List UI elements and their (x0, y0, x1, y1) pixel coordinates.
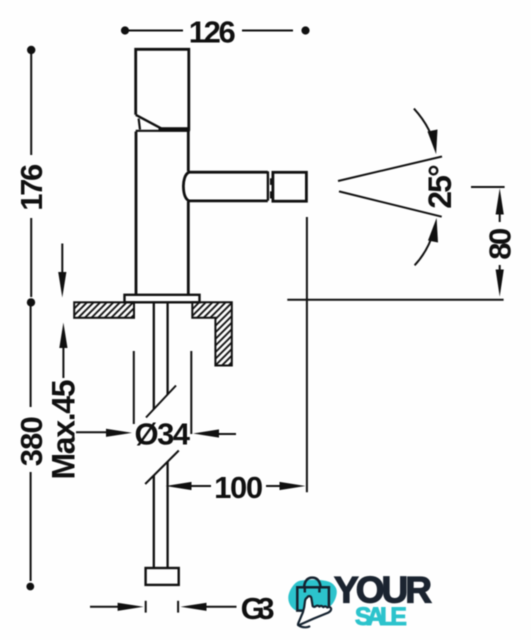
supply pipe (154, 302, 168, 568)
logo: teal blob (288, 580, 337, 613)
faucet body (136, 131, 189, 295)
angle 25 degrees: lower ray (339, 191, 442, 216)
base plate (125, 295, 200, 303)
leader arrow down to mounting surface (58, 244, 66, 298)
label Ø34 (hole diameter) (135, 417, 191, 452)
svg-text:176: 176 (14, 164, 49, 211)
angle arc arrow upper (414, 109, 438, 155)
svg-text:Ø34: Ø34 (135, 417, 191, 452)
logo: hand cursor (298, 596, 331, 627)
dimension 100 (166, 470, 306, 505)
dimension 380 (left lower) (14, 298, 49, 590)
surface level line (right) (287, 299, 503, 301)
extension line from spout end (306, 217, 308, 492)
dimension Max.45 (46, 323, 82, 480)
svg-text:100: 100 (214, 470, 263, 505)
countertop left section (hatched) (74, 302, 134, 318)
svg-text:SALE: SALE (355, 603, 407, 631)
pipe end fitting G3/8 (146, 568, 179, 585)
countertop right section (hatched L-shape) (192, 302, 232, 365)
dimension Ø34 with leader lines (76, 351, 236, 438)
dimension G3 (thread size) (90, 591, 275, 626)
svg-text:G3: G3 (241, 591, 275, 626)
svg-text:380: 380 (14, 416, 49, 466)
spout joint ticks (270, 178, 272, 198)
dimension 176 (left upper) (14, 46, 49, 297)
pipe break line upper (146, 386, 176, 418)
faucet handle (136, 49, 190, 131)
aerator (273, 172, 307, 201)
svg-text:80: 80 (483, 228, 518, 260)
dimension 80 (right) (471, 187, 518, 297)
spout tube (183, 171, 268, 201)
svg-text:126: 126 (189, 15, 236, 50)
dimension 126 (top) (121, 15, 310, 50)
logo: shopping bag (297, 578, 329, 611)
svg-text:25°: 25° (422, 164, 458, 209)
angle arc arrow lower (415, 218, 438, 265)
angle 25 degrees: upper ray (338, 157, 442, 182)
pipe break line lower (145, 451, 179, 485)
svg-text:Max.45: Max.45 (46, 380, 82, 480)
